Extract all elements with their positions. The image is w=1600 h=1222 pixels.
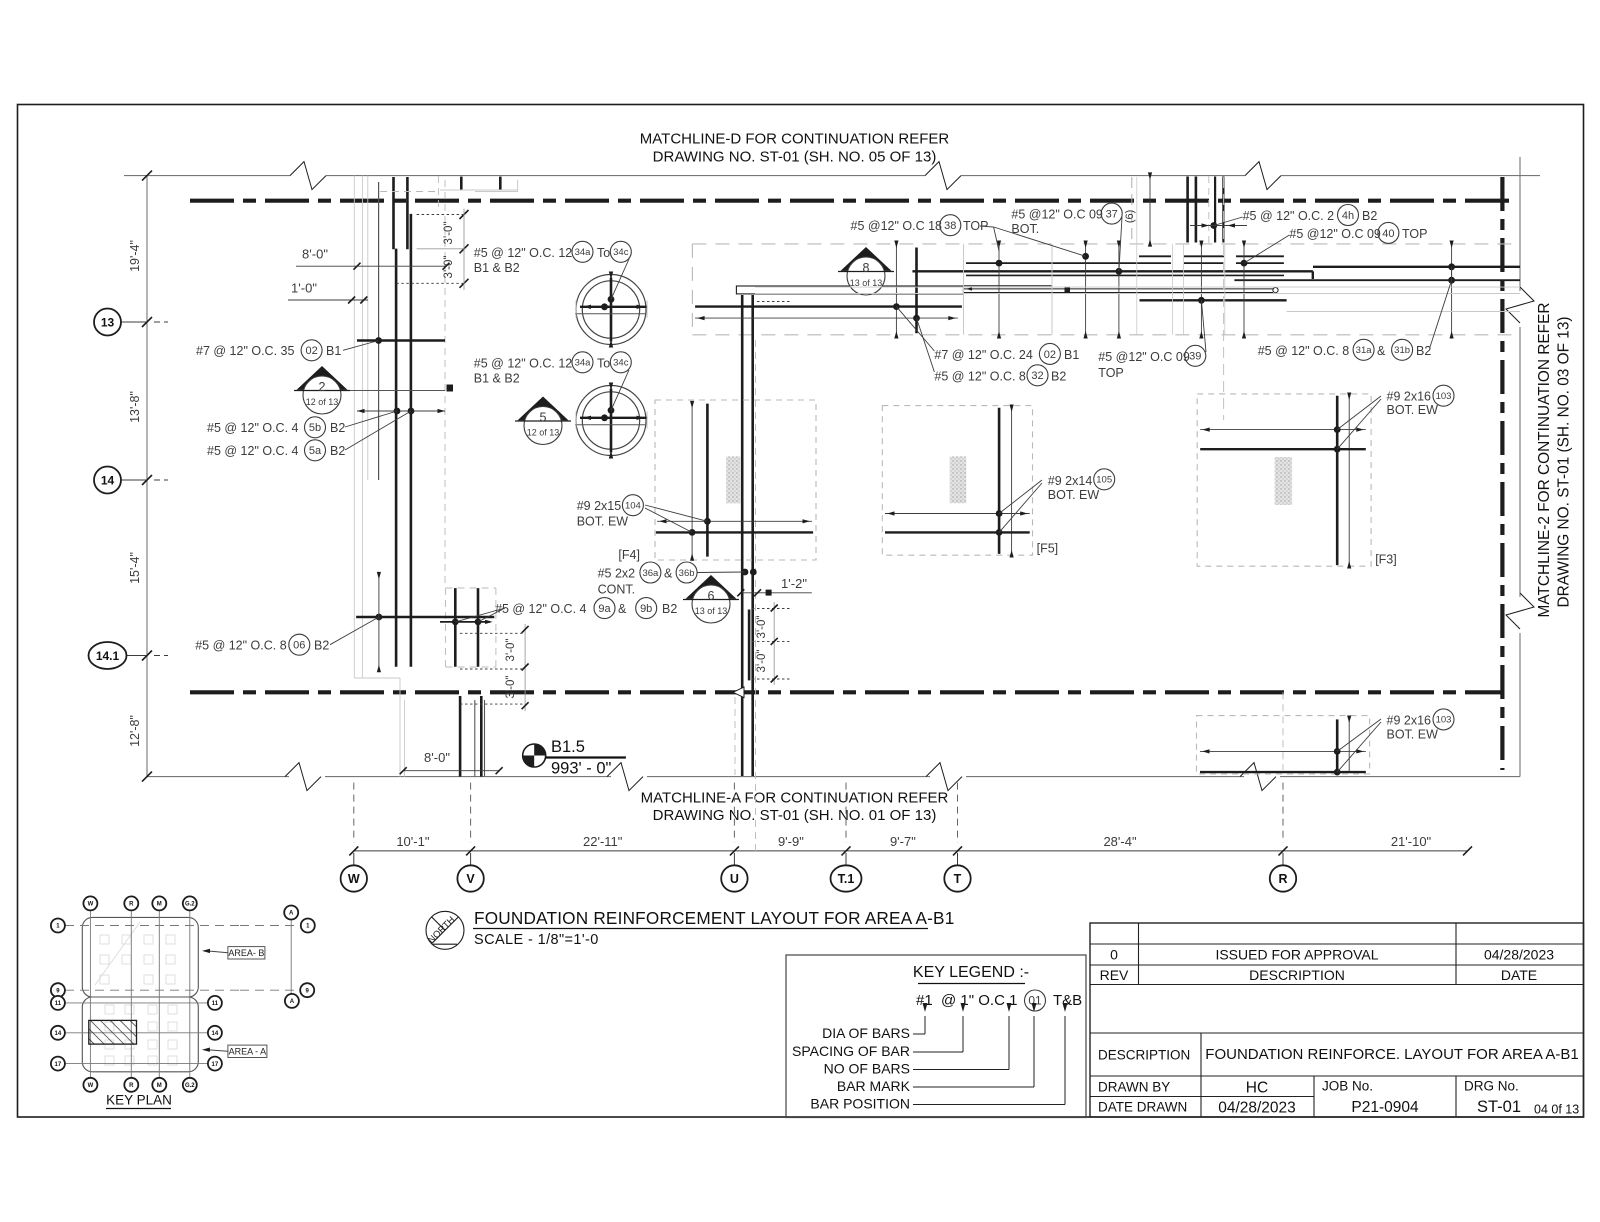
svg-text:32: 32 <box>1031 370 1043 382</box>
svg-text:B1 & B2: B1 & B2 <box>474 261 520 275</box>
svg-text:#9 2x14: #9 2x14 <box>1048 474 1093 488</box>
svg-text:12 of 13: 12 of 13 <box>306 397 339 407</box>
svg-text:13: 13 <box>101 315 115 329</box>
svg-text:8: 8 <box>863 261 870 275</box>
svg-text:A: A <box>289 911 294 917</box>
svg-text:105: 105 <box>1096 475 1112 486</box>
svg-text:#5 2x2: #5 2x2 <box>598 567 636 581</box>
svg-text:#5 @ 12" O.C. 4: #5 @ 12" O.C. 4 <box>207 444 299 458</box>
svg-text:14.1: 14.1 <box>96 649 120 663</box>
svg-text:@ 1" O.C 1: @ 1" O.C 1 <box>941 992 1017 1009</box>
svg-text:02: 02 <box>1044 349 1056 361</box>
svg-text:B1.5: B1.5 <box>551 738 585 756</box>
svg-text:38: 38 <box>944 220 956 232</box>
svg-text:[F3]: [F3] <box>1375 553 1397 567</box>
svg-text:12 of 13: 12 of 13 <box>527 428 560 438</box>
svg-text:#5 @ 12" O.C. 4: #5 @ 12" O.C. 4 <box>495 602 587 616</box>
svg-text:34c: 34c <box>613 358 629 369</box>
svg-text:DATE: DATE <box>1501 967 1537 983</box>
svg-text:9'-7": 9'-7" <box>890 834 916 849</box>
svg-text:DRAWN BY: DRAWN BY <box>1098 1080 1170 1095</box>
svg-text:104: 104 <box>625 501 641 512</box>
svg-text:NO OF BARS: NO OF BARS <box>824 1061 910 1077</box>
svg-text:CONT.: CONT. <box>598 583 636 597</box>
svg-text:B1 & B2: B1 & B2 <box>474 372 520 386</box>
svg-text:#9 2x16: #9 2x16 <box>1387 713 1432 727</box>
svg-text:DESCRIPTION: DESCRIPTION <box>1249 967 1345 983</box>
svg-text:22'-11": 22'-11" <box>583 834 623 849</box>
svg-text:TOP: TOP <box>1402 227 1427 241</box>
svg-text:T&B: T&B <box>1053 992 1082 1009</box>
svg-text:ISSUED FOR APPROVAL: ISSUED FOR APPROVAL <box>1215 947 1378 963</box>
svg-text:4h: 4h <box>1342 210 1354 222</box>
svg-text:19'-4": 19'-4" <box>128 240 142 272</box>
svg-text:BOT. EW: BOT. EW <box>1387 727 1439 741</box>
svg-text:P21-0904: P21-0904 <box>1351 1099 1419 1116</box>
svg-text:31b: 31b <box>1394 345 1410 356</box>
svg-text:37: 37 <box>1106 208 1118 220</box>
svg-text:5b: 5b <box>309 422 321 434</box>
svg-text:M: M <box>157 1083 162 1089</box>
svg-text:11: 11 <box>55 1001 62 1007</box>
svg-text:993' - 0": 993' - 0" <box>551 760 612 778</box>
svg-text:B1: B1 <box>1064 348 1079 362</box>
svg-text:G.2: G.2 <box>185 902 195 908</box>
svg-text:DRAWING NO. ST-01 (SH. NO. 03: DRAWING NO. ST-01 (SH. NO. 03 OF 13) <box>1556 316 1573 607</box>
svg-text:(6): (6) <box>1124 210 1136 223</box>
svg-text:&: & <box>664 567 673 581</box>
svg-text:W: W <box>88 902 94 908</box>
svg-text:MATCHLINE-2 FOR CONTINUATION: MATCHLINE-2 FOR CONTINUATION REFER <box>1536 303 1553 618</box>
svg-text:TOP: TOP <box>1098 366 1123 380</box>
svg-text:04/28/2023: 04/28/2023 <box>1218 1100 1296 1117</box>
svg-text:KEY PLAN: KEY PLAN <box>106 1093 172 1108</box>
svg-text:3'-0": 3'-0" <box>756 650 768 673</box>
svg-text:W: W <box>348 872 360 886</box>
svg-text:10'-1": 10'-1" <box>396 834 430 849</box>
svg-text:DATE DRAWN: DATE DRAWN <box>1098 1100 1187 1115</box>
svg-text:#9 2x16: #9 2x16 <box>1387 390 1432 404</box>
svg-text:B2: B2 <box>1416 344 1431 358</box>
svg-text:#5 @ 12" O.C. 4: #5 @ 12" O.C. 4 <box>207 421 299 435</box>
svg-text:[F4]: [F4] <box>618 548 640 562</box>
svg-text:8'-0": 8'-0" <box>424 750 450 765</box>
svg-text:#5 @ 12" O.C. 8: #5 @ 12" O.C. 8 <box>195 639 287 653</box>
svg-text:B2: B2 <box>330 444 345 458</box>
svg-text:SCALE - 1/8"=1'-0: SCALE - 1/8"=1'-0 <box>474 932 599 948</box>
svg-text:15'-4": 15'-4" <box>128 552 142 584</box>
svg-text:21'-10": 21'-10" <box>1391 834 1432 849</box>
svg-text:103: 103 <box>1436 391 1452 402</box>
svg-text:DESCRIPTION: DESCRIPTION <box>1098 1048 1190 1063</box>
svg-text:04 0f 13: 04 0f 13 <box>1534 1103 1579 1117</box>
svg-text:BOT. EW: BOT. EW <box>1048 488 1100 502</box>
svg-text:#5 @ 12" O.C. 2: #5 @ 12" O.C. 2 <box>1243 209 1335 223</box>
svg-text:&: & <box>618 602 627 616</box>
svg-text:103: 103 <box>1436 715 1452 726</box>
svg-text:&: & <box>1377 344 1386 358</box>
svg-text:[F5]: [F5] <box>1037 542 1059 556</box>
svg-text:To: To <box>597 246 610 260</box>
svg-text:B2: B2 <box>314 639 329 653</box>
svg-text:B2: B2 <box>1362 209 1377 223</box>
svg-text:BOT. EW: BOT. EW <box>577 515 629 529</box>
svg-text:12'-8": 12'-8" <box>128 715 142 747</box>
svg-text:DRAWING NO. ST-01 (SH. NO. 05: DRAWING NO. ST-01 (SH. NO. 05 OF 13) <box>653 149 937 166</box>
svg-text:G.2: G.2 <box>185 1083 195 1089</box>
svg-text:06: 06 <box>293 640 305 652</box>
svg-text:39: 39 <box>1189 351 1201 363</box>
svg-text:#5 @ 12" O.C. 12: #5 @ 12" O.C. 12 <box>474 246 572 260</box>
svg-text:11: 11 <box>212 1001 219 1007</box>
svg-text:#5 @ 12" O.C. 12: #5 @ 12" O.C. 12 <box>474 357 572 371</box>
svg-text:#5 @12" O.C 09: #5 @12" O.C 09 <box>1289 227 1381 241</box>
svg-text:6: 6 <box>708 589 715 603</box>
svg-text:#5 @ 12" O.C. 8: #5 @ 12" O.C. 8 <box>1258 344 1350 358</box>
svg-text:14: 14 <box>212 1031 219 1037</box>
svg-text:AREA - A: AREA - A <box>229 1047 267 1057</box>
svg-text:BOT. EW: BOT. EW <box>1387 403 1439 417</box>
svg-text:#9 2x15: #9 2x15 <box>577 499 622 513</box>
svg-text:BOT.: BOT. <box>1011 222 1039 236</box>
svg-text:U: U <box>730 872 739 886</box>
svg-text:3'-0": 3'-0" <box>505 639 517 662</box>
svg-text:8'-0": 8'-0" <box>302 247 328 262</box>
svg-text:28'-4": 28'-4" <box>1103 834 1137 849</box>
svg-text:36b: 36b <box>679 568 695 579</box>
svg-text:1'-2": 1'-2" <box>781 576 807 591</box>
svg-text:9'-9": 9'-9" <box>778 834 804 849</box>
svg-text:BAR MARK: BAR MARK <box>837 1078 911 1094</box>
svg-text:B1: B1 <box>326 344 341 358</box>
svg-text:#5 @12" O.C 09: #5 @12" O.C 09 <box>1098 350 1190 364</box>
svg-text:DIA OF BARS: DIA OF BARS <box>822 1025 910 1041</box>
svg-text:36a: 36a <box>642 568 659 579</box>
svg-text:02: 02 <box>305 345 317 357</box>
svg-text:40: 40 <box>1382 228 1394 240</box>
svg-text:13'-8": 13'-8" <box>128 391 142 423</box>
svg-text:9b: 9b <box>640 603 652 615</box>
svg-text:DRAWING NO. ST-01 (SH. NO. 01: DRAWING NO. ST-01 (SH. NO. 01 OF 13) <box>653 807 937 824</box>
svg-text:MATCHLINE-D FOR CONTINUATION: MATCHLINE-D FOR CONTINUATION REFER <box>640 131 950 148</box>
svg-text:14: 14 <box>55 1031 62 1037</box>
svg-text:17: 17 <box>212 1062 219 1068</box>
svg-text:13 of 13: 13 of 13 <box>850 278 883 288</box>
svg-text:5: 5 <box>540 411 547 425</box>
svg-text:SPACING OF BAR: SPACING OF BAR <box>792 1043 910 1059</box>
svg-text:04/28/2023: 04/28/2023 <box>1484 947 1554 963</box>
svg-text:3'-0": 3'-0" <box>756 616 768 639</box>
svg-text:#7 @ 12" O.C. 35: #7 @ 12" O.C. 35 <box>196 344 294 358</box>
svg-text:HC: HC <box>1246 1080 1268 1097</box>
svg-text:31a: 31a <box>1356 345 1373 356</box>
svg-text:#5 @12" O.C 18: #5 @12" O.C 18 <box>851 219 943 233</box>
svg-text:FOUNDATION REINFORCEMENT LAYOU: FOUNDATION REINFORCEMENT LAYOUT FOR AREA… <box>474 908 954 928</box>
svg-text:R: R <box>1278 872 1287 886</box>
svg-text:To: To <box>597 357 610 371</box>
svg-text:9a: 9a <box>598 603 611 615</box>
svg-text:5a: 5a <box>309 445 322 457</box>
svg-text:14: 14 <box>101 473 115 487</box>
svg-text:REV: REV <box>1100 967 1129 983</box>
svg-text:B2: B2 <box>1051 369 1066 383</box>
svg-text:R: R <box>129 902 134 908</box>
svg-text:DRG No.: DRG No. <box>1464 1079 1519 1094</box>
svg-text:34a: 34a <box>575 358 592 369</box>
svg-text:2: 2 <box>319 380 326 394</box>
svg-text:13 of 13: 13 of 13 <box>695 606 728 616</box>
svg-text:M: M <box>157 902 162 908</box>
svg-text:BAR POSITION: BAR POSITION <box>810 1096 910 1112</box>
svg-text:34a: 34a <box>575 247 592 258</box>
svg-text:MATCHLINE-A FOR CONTINUATION: MATCHLINE-A FOR CONTINUATION REFER <box>641 790 949 807</box>
svg-text:#5 @ 12" O.C. 8: #5 @ 12" O.C. 8 <box>934 369 1026 383</box>
svg-text:JOB No.: JOB No. <box>1322 1079 1373 1094</box>
svg-text:1'-0": 1'-0" <box>291 281 317 296</box>
svg-text:3'-0": 3'-0" <box>505 676 517 699</box>
svg-text:B2: B2 <box>662 602 677 616</box>
svg-text:R: R <box>129 1083 134 1089</box>
svg-text:A: A <box>290 999 295 1005</box>
svg-text:B2: B2 <box>330 421 345 435</box>
svg-text:T.1: T.1 <box>838 872 855 886</box>
svg-text:ST-01: ST-01 <box>1477 1098 1521 1116</box>
svg-text:#7 @ 12" O.C. 24: #7 @ 12" O.C. 24 <box>934 348 1032 362</box>
svg-text:34c: 34c <box>613 247 629 258</box>
svg-text:AREA- B: AREA- B <box>228 948 264 958</box>
svg-text:T: T <box>954 872 962 886</box>
svg-text:FOUNDATION REINFORCE. LAYOUT F: FOUNDATION REINFORCE. LAYOUT FOR AREA A-… <box>1205 1046 1578 1063</box>
svg-text:W: W <box>88 1083 94 1089</box>
svg-text:KEY LEGEND :-: KEY LEGEND :- <box>913 964 1029 981</box>
svg-text:3'-0": 3'-0" <box>443 222 455 245</box>
svg-text:V: V <box>466 872 475 886</box>
svg-text:17: 17 <box>55 1062 62 1068</box>
svg-text:#5 @12" O.C 09: #5 @12" O.C 09 <box>1011 208 1103 222</box>
svg-text:0: 0 <box>1110 947 1118 963</box>
